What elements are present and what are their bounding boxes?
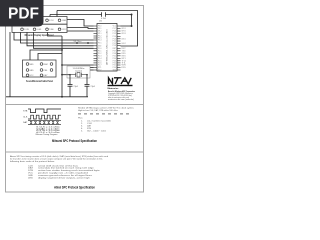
page background bbox=[0, 0, 149, 198]
legend timing values bbox=[36, 126, 61, 134]
pin names U1 right inside bbox=[113, 26, 117, 72]
wire strip drop e to bus bbox=[48, 32, 63, 36]
svg-text:VCC: VCC bbox=[28, 173, 34, 175]
pin J1 row1-4 bbox=[58, 19, 61, 22]
list protocol notes bbox=[81, 119, 111, 132]
junction dot right net 2 bbox=[131, 25, 133, 27]
svg-text:WR: WR bbox=[122, 65, 127, 66]
pin J2-2 bbox=[40, 63, 43, 66]
svg-text:LED: LED bbox=[28, 177, 33, 179]
separator rule under middle section bbox=[5, 151, 144, 153]
wire strip up-feed 1 bbox=[56, 11, 58, 17]
svg-text:PDF: PDF bbox=[8, 6, 39, 23]
svg-text:CLK: CLK bbox=[23, 117, 28, 119]
svg-text:Atmel SPC Protocol Specificati: Atmel SPC Protocol Specification bbox=[54, 185, 95, 190]
pin J2-8 bbox=[40, 74, 43, 77]
svg-text:serial shift clock line of the: serial shift clock line of the bus bbox=[38, 165, 79, 167]
svg-text:REM: REM bbox=[44, 64, 48, 66]
pin J2-4 bbox=[26, 69, 29, 72]
svg-text:positive supply rail, +5 volts: positive supply rail, +5 volts regulated bbox=[38, 172, 89, 174]
PDF badge bbox=[0, 0, 44, 27]
junction dot bundle b bbox=[87, 42, 89, 44]
pin J1 row2-2 bbox=[33, 28, 36, 31]
list definitions bbox=[28, 165, 100, 179]
pin J1 row2-1 bbox=[21, 28, 24, 31]
op IC U1 body bbox=[97, 24, 117, 72]
svg-text:common ground reference for al: common ground reference for all signal l… bbox=[38, 175, 93, 177]
wire xtal2 to IC bbox=[90, 69, 94, 71]
svg-text:CLK: CLK bbox=[87, 123, 93, 125]
pin labels right outside bbox=[122, 28, 127, 69]
svg-text:973-555-0123 / 555-0124 (fax): 973-555-0123 / 555-0124 (fax) bbox=[108, 95, 132, 97]
pin J2-6 bbox=[50, 69, 53, 72]
connector J1 row2 bbox=[12, 24, 67, 32]
junction dot ground bus bbox=[61, 96, 63, 98]
pin J1 row2-4 bbox=[58, 28, 61, 31]
wire to panel B pin 1 bbox=[30, 50, 62, 60]
pin J2-3 bbox=[50, 63, 53, 66]
svg-text:SND: SND bbox=[30, 64, 35, 66]
svg-text:5K Ohm: 5K Ohm bbox=[74, 41, 82, 43]
capacitor C2 bbox=[85, 75, 90, 97]
svg-text:GND: GND bbox=[30, 70, 35, 72]
connector J1 Mitsumi display strip row1 bbox=[12, 17, 67, 25]
svg-text:CBL: CBL bbox=[44, 70, 48, 72]
wire strip drop d bbox=[34, 32, 94, 48]
svg-text:Mitsumi SPC Protocol Specifica: Mitsumi SPC Protocol Specification bbox=[52, 139, 97, 143]
pin J1 row1-1 bbox=[21, 19, 24, 22]
svg-text:STB: STB bbox=[23, 110, 28, 112]
logo underline bar bbox=[108, 85, 133, 86]
svg-text:RD: RD bbox=[122, 67, 127, 68]
waveform STB bbox=[28, 109, 61, 113]
waveform CLK bbox=[28, 115, 61, 119]
pin J1 row2-3 bbox=[46, 28, 49, 31]
junction dot bus low bbox=[61, 74, 63, 76]
junction dot right net bbox=[131, 14, 133, 16]
wire top net2 bbox=[50, 14, 102, 16]
svg-text:INT0: INT0 bbox=[122, 55, 126, 57]
junction dot bundle a bbox=[76, 42, 78, 44]
wire strip to IC b bbox=[67, 28, 94, 29]
svg-text:VCC: VCC bbox=[30, 75, 35, 77]
wire net2 after cap bbox=[106, 15, 132, 27]
waveform DAT bbox=[28, 121, 61, 125]
svg-text:XT1: XT1 bbox=[98, 67, 101, 69]
junction dot bus mid bbox=[61, 64, 63, 66]
pin J2-5 bbox=[40, 69, 43, 72]
bit dash row bbox=[78, 113, 129, 116]
pin J2-1 bbox=[26, 63, 29, 66]
junction dot bus top bbox=[61, 49, 63, 51]
pin names U1 left inside bbox=[98, 26, 102, 72]
svg-text:STB: STB bbox=[28, 170, 34, 172]
wire top net1 bbox=[57, 11, 138, 47]
logo info text block bbox=[108, 90, 135, 101]
wire to panel B pin 2 bbox=[38, 54, 62, 61]
junction dot cap tap right bbox=[86, 74, 88, 76]
wire strip drop a bbox=[14, 32, 94, 40]
wire strip to IC c bbox=[67, 30, 94, 32]
wire strip drop b bbox=[21, 32, 94, 43]
capacitor C4 inline plates bbox=[102, 12, 106, 17]
wire bus to crystal lead bbox=[62, 74, 70, 76]
svg-text:active low strobe framing each: active low strobe framing each transmitt… bbox=[38, 170, 100, 172]
junction dot cap tap left bbox=[69, 74, 71, 76]
wire strip drop c bbox=[27, 32, 94, 46]
wire strip to IC a bbox=[67, 20, 94, 27]
separator rule under schematic bbox=[5, 104, 144, 106]
page border frame bbox=[6, 6, 144, 193]
crystal Y1 symbol bbox=[70, 73, 87, 78]
pin J1 row1-2 bbox=[33, 19, 36, 22]
capacitor C1 bbox=[68, 75, 73, 97]
svg-text:11.0592Mhz: 11.0592Mhz bbox=[73, 68, 85, 70]
svg-text:AT89C2051 Microcontroller: AT89C2051 Microcontroller bbox=[106, 29, 108, 65]
paragraph intro lines bbox=[10, 155, 108, 163]
logo Matronics glyph bbox=[109, 78, 132, 84]
connector J2 sound remote cable panel bbox=[23, 60, 57, 77]
svg-text:INT1: INT1 bbox=[122, 58, 126, 60]
pins U1 left bbox=[94, 26, 98, 70]
svg-text:GND: GND bbox=[28, 175, 34, 177]
svg-text:Plus:: Plus: bbox=[78, 118, 83, 120]
wire xtal1 to IC bbox=[90, 67, 94, 69]
wire ground rail bbox=[6, 96, 88, 98]
svg-text:XT2: XT2 bbox=[98, 70, 101, 72]
wire left rail bbox=[9, 32, 11, 97]
svg-text:t4 CLK = 3.0 uSec: t4 CLK = 3.0 uSec bbox=[36, 131, 61, 133]
svg-text:CLK: CLK bbox=[28, 165, 34, 167]
wire strip up-feed 2 bbox=[49, 15, 51, 17]
pins U1 right bbox=[117, 26, 121, 70]
wire main vertical bus bbox=[61, 36, 63, 97]
pin J1 row1-3 bbox=[46, 19, 49, 22]
crystal Y1 box bbox=[67, 66, 90, 78]
wire bus to IC row bbox=[62, 64, 94, 66]
pin J2-7 bbox=[26, 74, 29, 77]
